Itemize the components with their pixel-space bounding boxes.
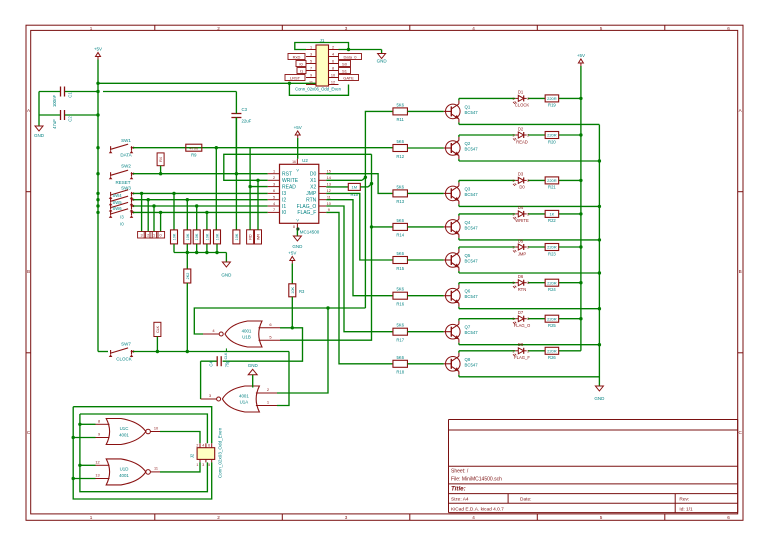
svg-text:I2: I2 [282, 198, 286, 204]
svg-text:2: 2 [527, 179, 529, 183]
svg-text:9: 9 [98, 433, 100, 437]
svg-text:FLAG_F: FLAG_F [297, 210, 316, 216]
svg-text:13: 13 [95, 474, 99, 478]
wire collector row [459, 319, 581, 321]
wire emitter row [459, 238, 600, 240]
svg-text:1: 1 [512, 246, 514, 250]
wire FLAG_F output [326, 212, 393, 363]
svg-text:U1D: U1D [120, 466, 129, 471]
transistor Q2 BC547 [444, 137, 478, 159]
wire FLAG_O output [326, 206, 393, 332]
NOR gate U1A 4001 [201, 386, 277, 412]
svg-text:15: 15 [327, 170, 331, 174]
wire I3 row [133, 192, 268, 194]
transistor Q3 BC547 [444, 182, 478, 204]
label I2 box [144, 232, 152, 239]
svg-text:6: 6 [273, 189, 275, 193]
wire base [408, 192, 444, 194]
svg-text:Q1: Q1 [465, 104, 471, 109]
switch SW3 [109, 186, 134, 199]
svg-text:2: 2 [217, 515, 220, 520]
svg-text:5: 5 [208, 463, 210, 467]
hierarchical label S0 [339, 61, 351, 67]
svg-text:4: 4 [472, 26, 475, 31]
svg-text:Title:: Title: [451, 486, 466, 493]
svg-text:1K: 1K [549, 212, 554, 217]
power +5V pull R3 [288, 251, 305, 328]
IC U2 MC14500 [268, 158, 331, 235]
junction R10 to write net [370, 182, 373, 185]
junction inner loop [78, 423, 81, 426]
svg-text:12: 12 [327, 189, 331, 193]
svg-text:READ: READ [282, 184, 296, 190]
svg-text:2: 2 [527, 246, 529, 250]
svg-text:3: 3 [345, 515, 348, 520]
ground GND right [594, 386, 605, 401]
svg-text:1: 1 [512, 179, 514, 183]
wire V2 to R14 [372, 226, 394, 228]
wire collector row [459, 135, 581, 137]
wire DATA row [133, 147, 393, 149]
junction collector rail [579, 317, 582, 320]
wire latch inner loop [80, 423, 96, 425]
svg-text:R14: R14 [396, 233, 404, 238]
wire U2 VSS to ground [296, 229, 298, 237]
svg-text:D0: D0 [310, 172, 317, 178]
svg-text:10K: 10K [195, 233, 199, 240]
svg-text:47uF: 47uF [52, 119, 57, 129]
svg-text:3: 3 [310, 53, 312, 57]
NOR gate U1B 4001 [203, 321, 280, 359]
svg-text:10: 10 [154, 426, 158, 430]
svg-text:BC547: BC547 [465, 225, 479, 230]
resistor R20 220R [545, 132, 559, 145]
LED D1 CLOCK [512, 90, 529, 108]
wire collector row [459, 351, 581, 353]
junction collector rail [579, 97, 582, 100]
svg-text:4: 4 [332, 53, 334, 57]
svg-text:Rev:: Rev: [679, 497, 689, 503]
svg-text:2: 2 [147, 234, 149, 238]
wire CLOCK row [98, 351, 108, 353]
svg-text:2K2: 2K2 [186, 273, 190, 280]
svg-text:BC547: BC547 [465, 259, 479, 264]
svg-text:5K6: 5K6 [396, 323, 404, 328]
svg-text:6: 6 [208, 443, 210, 447]
svg-text:File: MiniMC14500.sch: File: MiniMC14500.sch [451, 476, 502, 482]
svg-text:220R: 220R [547, 245, 557, 250]
resistor R11 5K6 [393, 102, 408, 122]
svg-text:RTN: RTN [306, 198, 317, 204]
svg-text:R15: R15 [396, 266, 404, 271]
svg-text:GND: GND [221, 273, 232, 278]
wire collector row [459, 214, 581, 216]
label box WRITE pulldown [255, 230, 262, 244]
svg-text:5K6: 5K6 [396, 102, 404, 107]
wire X1 to oscillator net [326, 177, 365, 180]
wire bus to ground [225, 253, 227, 263]
transistor Q4 BC547 [444, 216, 478, 238]
svg-text:1: 1 [512, 281, 514, 285]
resistor R16 5K6 [393, 287, 408, 307]
wire +5V to J1 pin11 row [98, 82, 316, 84]
border row ticks and letters [26, 108, 743, 435]
svg-text:4001: 4001 [239, 394, 249, 399]
svg-text:6: 6 [727, 515, 730, 520]
wire emitter row [459, 122, 600, 124]
wire U1B pin6 to C4 [223, 328, 303, 361]
wire READ drop [249, 148, 251, 230]
wire C4 to U1A output [200, 361, 202, 399]
junction collector rail [579, 179, 582, 182]
svg-text:1: 1 [512, 349, 514, 353]
wire C1-C2 left to ground [38, 92, 40, 127]
wire U1D pin13 to outer loop [73, 478, 95, 480]
svg-text:U2: U2 [302, 158, 308, 163]
svg-text:U1B: U1B [242, 335, 251, 340]
svg-text:D3: D3 [518, 172, 524, 177]
svg-text:RxD: RxD [293, 54, 301, 59]
capacitor C2 47uF [39, 110, 98, 129]
junction R4 RST [159, 172, 162, 175]
svg-text:KiCad E.D.A. kicad 4.0.7: KiCad E.D.A. kicad 4.0.7 [451, 506, 504, 512]
svg-text:16: 16 [292, 160, 296, 164]
wire U1B output loop [194, 308, 365, 334]
wire bank bottoms to bus [173, 244, 175, 253]
svg-text:1: 1 [273, 170, 275, 174]
svg-text:RD: RD [249, 234, 253, 240]
svg-text:WRITE: WRITE [515, 218, 529, 223]
wire U1D output to J2 pin1 [160, 462, 200, 472]
svg-text:SW1: SW1 [121, 138, 131, 143]
wire U1D pin12 to inner loop [80, 464, 96, 466]
svg-text:100nF: 100nF [52, 95, 57, 108]
svg-text:3: 3 [345, 26, 348, 31]
wire emitter row [459, 343, 600, 345]
junction emitter rail [598, 343, 601, 346]
svg-text:Date:: Date: [520, 497, 531, 503]
svg-text:R10: R10 [350, 192, 358, 197]
wire base [408, 363, 444, 365]
svg-text:R17: R17 [396, 338, 404, 343]
svg-text:J2: J2 [190, 453, 195, 458]
svg-text:CLOCK: CLOCK [515, 103, 530, 108]
svg-text:4001: 4001 [119, 433, 129, 438]
resistor R24 220R [545, 279, 559, 292]
wire pin2 row to GND symbol [339, 49, 382, 51]
svg-text:10: 10 [327, 202, 331, 206]
resistor R22 1K [545, 210, 559, 223]
svg-text:GND: GND [292, 244, 303, 249]
svg-text:D2: D2 [518, 126, 524, 131]
svg-text:SW3: SW3 [121, 186, 131, 191]
wire base [408, 147, 444, 149]
label box CLK [154, 322, 161, 351]
capacitor C4 75p [201, 356, 230, 367]
svg-text:220R: 220R [547, 96, 557, 101]
svg-text:V: V [296, 219, 299, 223]
svg-text:1: 1 [90, 515, 93, 520]
svg-text:4700: 4700 [189, 146, 199, 151]
wire I0 row [133, 211, 268, 213]
svg-text:5: 5 [600, 515, 603, 520]
hierarchical label I1 [297, 68, 306, 74]
junction [347, 48, 350, 51]
svg-text:R23: R23 [548, 251, 556, 256]
svg-text:220R: 220R [547, 316, 557, 321]
wire WRITE staircase [224, 154, 372, 180]
svg-text:FLAG_F: FLAG_F [514, 355, 530, 360]
svg-text:GND: GND [34, 133, 45, 138]
junction emitter rail [598, 307, 601, 310]
resistor R8 10K [233, 230, 240, 244]
svg-text:X1: X1 [310, 178, 316, 184]
wire emitter row [459, 204, 600, 206]
svg-text:2: 2 [527, 317, 529, 321]
svg-text:1: 1 [512, 317, 514, 321]
svg-text:6: 6 [332, 60, 334, 64]
transistor Q1 BC547 [444, 100, 478, 122]
svg-text:C4: C4 [209, 361, 214, 367]
svg-text:U1C: U1C [120, 426, 129, 431]
svg-text:220R: 220R [547, 178, 557, 183]
svg-text:RTN: RTN [518, 287, 527, 292]
title block [449, 420, 738, 513]
svg-text:D4: D4 [518, 205, 524, 210]
svg-text:R25: R25 [548, 323, 556, 328]
svg-text:5: 5 [273, 196, 275, 200]
svg-text:B: B [739, 269, 742, 274]
svg-text:R18: R18 [396, 370, 404, 375]
svg-text:BC547: BC547 [465, 147, 479, 152]
svg-text:4001: 4001 [242, 329, 252, 334]
LED D4 WRITE [512, 205, 529, 223]
resistor R23 220R [545, 244, 559, 257]
svg-text:5K6: 5K6 [396, 184, 404, 189]
svg-text:Data_0: Data_0 [344, 54, 358, 59]
svg-text:220R: 220R [547, 280, 557, 285]
LED D3 D0 [512, 172, 529, 190]
svg-text:Q4: Q4 [465, 220, 471, 225]
resistor R15 5K6 [393, 251, 408, 271]
wire base [408, 295, 444, 297]
svg-text:R3: R3 [299, 289, 305, 294]
wire branch to J1 pin12 [289, 83, 348, 95]
hierarchical label GATE [339, 75, 359, 81]
svg-text:I1: I1 [282, 204, 286, 210]
svg-text:4: 4 [472, 515, 475, 520]
transistor Q5 BC547 [444, 249, 478, 271]
wire emitter row [459, 159, 600, 161]
ground GND bank [221, 262, 232, 278]
wire RST pulldown drop [235, 118, 237, 230]
svg-text:7: 7 [310, 67, 312, 71]
connector J1 Conn_02x06_Odd_Even [295, 38, 342, 92]
svg-text:6: 6 [727, 26, 730, 31]
wire clock to U1A input [277, 352, 289, 406]
svg-text:13: 13 [327, 182, 331, 186]
junction osc to U1A [326, 306, 329, 309]
junction collector rail [579, 245, 582, 248]
svg-text:D8: D8 [518, 342, 524, 347]
junction [288, 82, 291, 85]
svg-text:+5V: +5V [94, 47, 102, 52]
svg-text:Q7: Q7 [465, 325, 471, 330]
ground GND U2 [292, 236, 303, 249]
junction collector rail [579, 212, 582, 215]
wire I0 drops [160, 212, 162, 231]
wire READ to pin3 [250, 186, 268, 188]
svg-text:RST: RST [282, 172, 292, 178]
label box READ pulldown [247, 230, 254, 244]
junction X1 [364, 176, 367, 179]
wire pulldown bus [174, 252, 226, 254]
wire D0 output [326, 174, 393, 194]
LED D7 FLAG_O [512, 310, 531, 328]
svg-text:2: 2 [527, 212, 529, 216]
svg-text:Sheet: /: Sheet: / [451, 468, 469, 474]
svg-text:2: 2 [527, 134, 529, 138]
svg-text:R20: R20 [548, 139, 556, 144]
svg-text:Q3: Q3 [465, 186, 471, 191]
hierarchical label RxD [288, 54, 305, 60]
wire +5V collector rail [580, 70, 582, 351]
svg-text:12: 12 [331, 81, 335, 85]
svg-text:WRITE: WRITE [282, 178, 299, 184]
svg-text:D6: D6 [518, 274, 524, 279]
svg-text:220R: 220R [547, 133, 557, 138]
svg-text:R22: R22 [548, 218, 556, 223]
svg-text:S1: S1 [342, 68, 348, 73]
wire JMP output [326, 193, 393, 260]
junction C2 rail [96, 113, 99, 116]
svg-text:1: 1 [512, 212, 514, 216]
resistor R10 1M [326, 183, 371, 196]
switch SW5 [109, 200, 134, 212]
svg-text:FLAG_O: FLAG_O [514, 323, 531, 328]
ground GND above U1A [248, 363, 259, 387]
connector J2 Conn_02x03_Odd_Even [190, 427, 223, 478]
svg-text:9: 9 [328, 208, 330, 212]
svg-text:+5V: +5V [294, 125, 302, 130]
resistor R9 4700 pull-up [186, 144, 202, 157]
junction collector rail [579, 281, 582, 284]
svg-text:U1A: U1A [240, 400, 249, 405]
svg-text:8: 8 [293, 225, 295, 229]
wire C1 row to C3 [103, 91, 236, 93]
svg-text:8: 8 [332, 67, 334, 71]
transistor Q6 BC547 [444, 285, 478, 307]
junction R2 clock [186, 350, 189, 353]
svg-text:C3: C3 [242, 107, 248, 112]
resistor R26 220R [545, 347, 559, 360]
svg-text:5: 5 [600, 26, 603, 31]
junction emitter rail [598, 271, 601, 274]
switch SW1 DATA [109, 138, 134, 158]
resistor R21 220R [545, 177, 559, 190]
wire I2 drops [147, 200, 149, 232]
ground GND at J1 [377, 54, 388, 64]
svg-text:GATE: GATE [343, 75, 354, 80]
svg-text:CLOCK: CLOCK [116, 357, 132, 362]
hierarchical label I0 [296, 61, 306, 67]
switch SW7 CLOCK [109, 342, 134, 362]
wire RESET row [133, 173, 268, 175]
svg-text:Q6: Q6 [465, 289, 471, 294]
resistor R3 10K [184, 230, 191, 244]
svg-text:R16: R16 [396, 302, 404, 307]
junction emitter rail [598, 238, 601, 241]
wire oscillator vertical V1 [365, 111, 393, 308]
svg-text:2: 2 [217, 26, 220, 31]
svg-text:D7: D7 [518, 310, 524, 315]
svg-text:R4: R4 [159, 157, 163, 162]
wire emitter row [459, 307, 600, 309]
svg-text:X2: X2 [310, 184, 316, 190]
svg-text:R12: R12 [396, 154, 404, 159]
svg-text:SW7: SW7 [121, 342, 131, 347]
capacitor C3 22uF [231, 92, 251, 174]
svg-text:3: 3 [141, 234, 143, 238]
svg-text:1: 1 [90, 26, 93, 31]
svg-text:C2: C2 [68, 116, 73, 122]
junction R3 U1B input [291, 326, 294, 329]
svg-text:+5V: +5V [288, 251, 296, 256]
resistor R19 220R [545, 95, 559, 108]
svg-text:10: 10 [331, 74, 335, 78]
wire emitter row [459, 271, 600, 273]
svg-text:5K6: 5K6 [396, 355, 404, 360]
svg-text:Id: 1/1: Id: 1/1 [679, 506, 693, 512]
resistor R6 10K [203, 230, 210, 244]
svg-text:+5V: +5V [577, 53, 585, 58]
LED D6 RTN [512, 274, 529, 292]
svg-text:D0: D0 [519, 185, 525, 190]
svg-text:BC547: BC547 [465, 192, 479, 197]
svg-text:8: 8 [98, 419, 100, 423]
svg-text:RESET: RESET [115, 180, 130, 185]
power +5V at U2 [294, 125, 302, 159]
svg-text:10K: 10K [173, 233, 177, 240]
resistor R12 5K6 [393, 139, 408, 159]
wire collector row [459, 180, 581, 182]
wire RTN output [326, 200, 393, 296]
label I1 box [150, 232, 158, 239]
wire +5V rail [97, 65, 99, 352]
wire DATA pulldown drop [215, 148, 217, 230]
resistor R18 5K6 [393, 355, 408, 375]
svg-text:10K: 10K [291, 286, 295, 293]
svg-text:D5: D5 [518, 238, 524, 243]
svg-text:10K: 10K [235, 233, 239, 240]
svg-text:R24: R24 [548, 287, 556, 292]
wire collector row [459, 247, 581, 249]
svg-text:D1: D1 [518, 90, 524, 95]
power +5V right rail [577, 53, 585, 70]
svg-text:GND: GND [594, 396, 605, 401]
label I0 box [157, 232, 165, 239]
svg-text:SW2: SW2 [121, 163, 131, 168]
switch SW4 [109, 193, 134, 205]
transistor Q8 BC547 [444, 353, 478, 375]
svg-text:FLAG_O: FLAG_O [297, 204, 317, 210]
svg-text:GND: GND [377, 59, 388, 64]
junction collector rail [579, 133, 582, 136]
svg-text:V: V [296, 169, 299, 173]
svg-text:JMP: JMP [306, 191, 317, 197]
junction outer loop [72, 436, 75, 439]
svg-text:4001: 4001 [119, 473, 129, 478]
